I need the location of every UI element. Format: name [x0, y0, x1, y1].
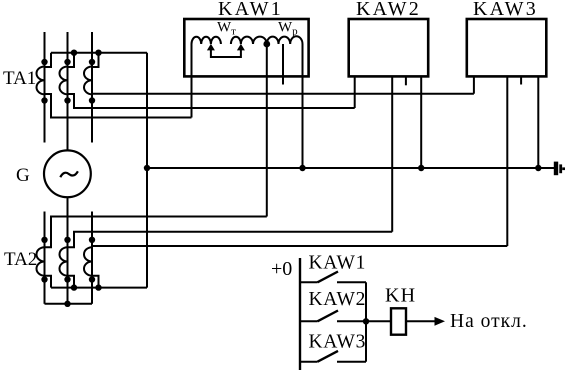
wire TA1 phase B top tap to bus: [68, 53, 75, 67]
node TA1 phase B secondary top: [64, 59, 70, 65]
node star point: [64, 301, 70, 307]
svg-text:KAW2: KAW2: [356, 0, 421, 20]
svg-text:KH: KH: [385, 285, 416, 307]
svg-text:G: G: [16, 165, 30, 186]
node TA1 bus phase B junction: [71, 50, 77, 56]
node TA1 phase C secondary bottom: [89, 97, 95, 103]
generator sine symbol: [60, 171, 78, 177]
contact KAW2 blade: [318, 311, 339, 322]
node TA2 phase A top: [41, 237, 47, 243]
wire KAW2 centre to TA2 phase B: [68, 232, 393, 248]
svg-text:KAW1: KAW1: [218, 0, 283, 20]
transformer winding Wр of KAW1: [267, 36, 303, 44]
node TA2 bus phase B junction: [71, 284, 77, 290]
wire KAW2 right terminal to main bus: [420, 76, 422, 168]
svg-text:TA2: TA2: [4, 249, 37, 270]
node contact output junction: [363, 318, 369, 324]
wire tap bracket of Wт: [211, 50, 241, 58]
relay KAW3 box: [467, 19, 547, 76]
relay coil KH: [391, 308, 406, 334]
wire KAW3 centre terminal down to TA2: [506, 76, 508, 246]
wire TA2 phase A bottom tap: [45, 276, 52, 288]
wire junction to relay KH: [366, 320, 391, 322]
svg-text:Wр: Wр: [278, 20, 298, 38]
svg-text:KAW3: KAW3: [309, 332, 367, 353]
node TA2 phase C bottom: [89, 276, 95, 282]
node TA1 phase C secondary top: [89, 59, 95, 65]
contact KAW2 fixed lead: [300, 320, 318, 322]
wire positive supply vertical: [299, 258, 301, 370]
wire TA2 phase C bottom tap: [92, 276, 99, 288]
wire common vertical TA1 bus to TA2 bus: [146, 53, 148, 288]
generator G circle: [44, 150, 91, 197]
node TA1 phase B secondary bottom: [64, 97, 70, 103]
node TA2 phase A bottom: [41, 276, 47, 282]
wire contact outputs parallel join: [365, 282, 367, 361]
svg-text:+0: +0: [271, 258, 292, 280]
node main bus at KAW2 right terminal: [418, 165, 424, 171]
current transformer TA1 phase B winding: [60, 67, 68, 95]
wire KAW1 centre to TA2 phase A: [45, 217, 267, 248]
tap arrow 1 on Wт: [207, 44, 215, 51]
current transformer TA1 phase C winding: [84, 67, 92, 95]
wire phase A top (TA1 section): [44, 32, 46, 143]
svg-text:Wт: Wт: [217, 20, 236, 38]
node main bus at common vertical: [144, 165, 150, 171]
wire KH to output arrow: [406, 320, 435, 322]
svg-text:KAW2: KAW2: [309, 289, 367, 310]
svg-text:На откл.: На откл.: [450, 311, 528, 332]
transformer winding Wт of KAW1: [192, 37, 267, 44]
contact KAW1 output lead: [337, 281, 366, 283]
wire phase C bottom (TA2 section): [91, 212, 93, 304]
tap arrow 2 on Wт: [237, 44, 245, 51]
node main bus at KAW1 right terminal: [299, 165, 305, 171]
ground symbol: [556, 162, 564, 176]
contact KAW2 output lead: [337, 320, 366, 322]
current transformer TA1 phase A winding: [37, 67, 45, 95]
node TA1 phase A secondary top: [41, 59, 47, 65]
svg-text:KAW3: KAW3: [473, 0, 538, 20]
wire TA2 secondary common bus: [51, 287, 147, 289]
node TA2 bus phase C junction: [95, 284, 101, 290]
wire KAW1 left terminal down: [191, 44, 193, 118]
arrow to trip: [435, 317, 446, 326]
wire TA1 phase C top tap to bus: [92, 53, 99, 67]
wire phase B top (TA1 section): [67, 32, 69, 151]
wire KAW2 stub terminal: [405, 76, 407, 85]
node TA2 phase C top: [89, 237, 95, 243]
wire KAW3 right terminal to main bus: [537, 76, 539, 168]
contact KAW3 blade: [318, 351, 339, 362]
wire TA1 phase A top tap to bus: [45, 53, 52, 67]
wire KAW2 left terminal down: [354, 76, 356, 108]
current transformer TA2 phase C winding: [84, 247, 92, 276]
wire KAW3 centre to TA2 phase C: [92, 245, 507, 247]
contact KAW1 blade: [318, 272, 339, 283]
node TA1 phase A secondary bottom: [41, 97, 47, 103]
node main bus at KAW3 right terminal: [535, 165, 541, 171]
wire phase B bottom (TA2 section): [67, 197, 69, 304]
wire TA1 phase C bottom tap to KAW3: [92, 93, 474, 95]
svg-text:TA1: TA1: [3, 68, 36, 89]
svg-text:KAW1: KAW1: [309, 253, 367, 274]
wire KAW2 centre terminal down to TA2: [391, 76, 393, 231]
wire KAW3 left terminal down: [473, 76, 475, 93]
wire generator star point: [45, 303, 93, 305]
wire phase A bottom (TA2 section): [44, 212, 46, 304]
wire TA2 phase B bottom tap: [68, 276, 75, 288]
relay KAW2 box: [349, 19, 429, 76]
wire TA1 phase A bottom tap to KAW1: [45, 94, 192, 118]
wire grounded main bus: [147, 167, 554, 169]
current transformer TA2 phase A winding: [36, 247, 44, 276]
wire KAW1 centre terminal down to TA2: [266, 44, 268, 217]
node TA2 phase B bottom: [64, 276, 70, 282]
wire KAW1 right terminal to main bus: [302, 44, 304, 168]
wire KAW1 stub terminal: [282, 44, 284, 85]
current transformer TA2 phase B winding: [59, 247, 67, 276]
node TA1 bus phase C junction: [95, 50, 101, 56]
wire KAW3 stub terminal: [520, 76, 522, 84]
contact KAW1 fixed lead: [300, 281, 318, 283]
node KAW1 winding centre tap: [263, 41, 270, 48]
wire TA1 phase B bottom tap to KAW2: [68, 94, 355, 108]
contact KAW3 fixed lead: [300, 361, 318, 363]
relay KAW1 box: [184, 19, 308, 76]
contact KAW3 output lead: [337, 361, 366, 363]
node TA2 phase B top: [64, 237, 70, 243]
wire TA1 secondary common bus: [51, 52, 147, 54]
wire phase C top (TA1 section): [91, 32, 93, 143]
